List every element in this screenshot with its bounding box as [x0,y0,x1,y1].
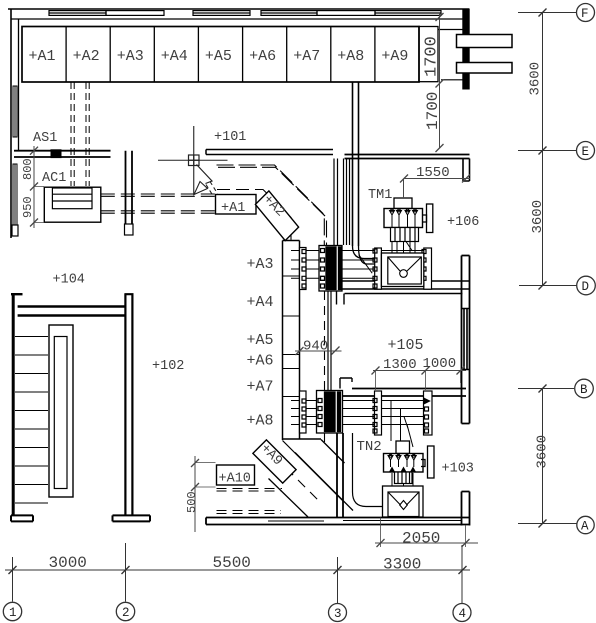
wall B stub hook [340,378,352,389]
grid line E [518,150,576,152]
svg-text:+A4: +A4 [161,48,188,65]
svg-text:+103: +103 [442,462,474,477]
dim 1700 vertical line right of cabinets [439,13,441,148]
dim text 1000 [423,356,457,372]
TM1 transformer tank [384,209,423,228]
+A10 box [217,465,255,485]
wall end cap AC1-room [125,224,134,235]
grid bubble 4 [453,604,471,622]
stair flight outer rect [49,325,73,497]
svg-text:2: 2 [122,606,130,620]
AC1 cabinet inner box [52,188,92,209]
TN2 top pin box [396,441,410,454]
label +A2 cabinet [73,48,100,65]
label +A1 cabinet [29,48,56,65]
grid letter A [581,520,589,534]
label +A8 tray [247,413,274,430]
wire crosshair horizontal [158,159,228,161]
wall D stub down [337,289,345,305]
corner bottom diagonal mid edge [295,453,353,511]
dim text 2050 [402,530,440,548]
TM1 tank internal wires [392,214,415,228]
svg-text:1550: 1550 [416,165,450,181]
TN2 wires from busbars [391,401,413,448]
dim text 800 [21,158,35,180]
dim text 1300 [383,357,417,373]
svg-text:+101: +101 [214,130,246,145]
svg-text:1700: 1700 [424,92,442,130]
horizontal tray AC1 to +A1 top edge [101,194,216,196]
TM1 switch cell inner [388,257,422,284]
dim bottom main line [5,569,470,571]
svg-text:5500: 5500 [213,554,251,572]
tray rail TM1 level [300,248,307,290]
svg-text:+A7: +A7 [293,48,320,65]
dim 1550 ticks [400,175,470,183]
svg-text:1700: 1700 [423,36,442,77]
busbar run TN2 level [291,401,428,425]
column on wall E left [51,150,61,158]
label +A7 tray [247,379,274,396]
wire crosshair vertical [193,126,195,194]
window W6 top wall [375,11,441,16]
svg-text:3: 3 [334,607,342,621]
dim right vertical B-A [542,389,544,524]
svg-text:+102: +102 [152,359,184,374]
+A1 box [216,195,257,215]
TM1 right radiator bar [423,204,433,233]
grid line 3 [337,557,339,603]
label +A9 box rotated [257,441,285,469]
grid line F [518,12,576,14]
dim 2050 line [375,542,478,544]
vertical tray compartment dividers [283,276,300,397]
arc conduit TN2 [353,433,383,507]
dim 500 ticks [191,459,199,491]
dim text 940 [303,339,328,355]
svg-text:+A5: +A5 [205,48,232,65]
label TN2 [357,439,382,455]
wall crossing box TN2 level [317,391,343,434]
dim 500 line [194,456,196,532]
svg-text:940: 940 [303,339,328,355]
grid line A [518,523,577,525]
TN2 right radiator bar [421,446,434,478]
svg-text:+A1: +A1 [29,48,56,65]
grid bubble 1 [3,602,21,620]
corner bottom diagonal dashed center [286,468,320,502]
dim right vertical F-D [542,13,544,286]
feed arrow head [194,182,208,195]
wall right upper [463,9,469,89]
label +105 [388,337,424,354]
svg-text:+A3: +A3 [117,48,144,65]
TM1 wires down [392,242,415,254]
wall E segment mid (+101 south) [206,150,333,155]
dim 1700 ticks [436,13,444,152]
svg-text:+A5: +A5 [247,332,274,349]
svg-text:3000: 3000 [49,554,87,572]
svg-text:1000: 1000 [423,356,457,372]
window W5 top wall [317,11,375,16]
window bottom wall [268,520,324,522]
wall B (room 105 south) [325,389,466,397]
wall left outer line [10,9,12,238]
vertical tray top cap [283,240,300,242]
dim text 5500 [213,554,251,572]
rail TN2 left [373,391,382,435]
grid line 4 [461,545,463,603]
rail TN2 right [424,391,433,435]
label +102 [152,359,184,374]
grid letter F [581,7,589,21]
label +A4 cabinet [161,48,188,65]
busbar run TM1 level [291,251,428,279]
TM1 transformer top rect [394,198,412,209]
TN2 cell funnel [388,492,419,510]
dim 940 ticks [296,347,340,356]
dim text 3600 F-E [528,62,544,96]
dim 1300/1000 extensions [376,371,461,391]
svg-text:1: 1 [9,606,17,620]
grid number 1 [9,606,17,620]
label +A3 tray [247,256,274,273]
window W7 left wall [13,86,17,137]
TN2 switch cell inner [388,492,419,517]
label +A3 cabinet [117,48,144,65]
cabinet row +A1..+A9 outline [22,27,419,83]
corner bottom diagonal edge 2 [283,441,345,503]
svg-text:+A3: +A3 [247,256,274,273]
svg-text:+A10: +A10 [219,472,251,487]
svg-text:+A2: +A2 [73,48,100,65]
grid number 3 [334,607,342,621]
dim text 3000 [49,554,87,572]
stair flight inner rect [54,337,67,489]
label +A10 box [219,472,251,487]
dim text 950 [21,196,35,218]
label TM1 [368,188,392,203]
window W1 top wall [49,11,106,16]
grid bubble 3 [329,604,347,622]
svg-text:E: E [582,145,590,159]
svg-text:+A1: +A1 [221,201,245,216]
dim bottom ticks [9,566,467,574]
wall left inner line [18,19,20,150]
svg-text:3300: 3300 [383,556,421,574]
dim text 1550 [416,165,450,181]
label AS1 [33,131,57,146]
window W2 top wall [106,11,164,16]
stairwell left wall [11,294,33,522]
vertical tray bottom cap [283,438,322,440]
feed arrow dashed tail [206,182,218,197]
wall TN2-room west [337,433,343,518]
wall pair between crossings [328,291,331,390]
label +A4 tray [247,294,274,311]
svg-text:+A7: +A7 [247,379,274,396]
wall top outer line [8,8,469,10]
TM1 winding box [391,228,419,242]
tray corner fan outer dashed edge [217,165,327,246]
svg-text:+A4: +A4 [247,294,274,311]
arc conduit TM1 [353,246,375,264]
label +106 [447,215,479,230]
TN2 wires to cell [392,473,413,486]
stairwell top wall [18,307,126,316]
svg-text:TN2: TN2 [357,439,382,455]
window right wall [462,309,470,370]
dim 1550 line [404,179,471,199]
label +103 [442,462,474,477]
svg-text:3600: 3600 [528,62,544,96]
wall right middle column [462,256,470,424]
window W8 left wall [13,164,17,225]
corner bottom diagonal upper edge [321,440,345,464]
grid letter E [582,145,590,159]
label +A9 cabinet [381,48,408,65]
dim text 3300 [383,556,421,574]
grid line D [519,285,577,287]
dim 500 extensions [195,463,216,488]
tray rail TN2 level [300,391,307,433]
wall crossing box TM1 level [319,246,342,292]
grid bubble F [577,4,595,22]
svg-text:F: F [581,7,589,21]
TN2 bottom contacts [390,468,416,473]
label +A1 box [221,201,245,216]
duct pair from cabinet +A2 down to AC1 [71,82,89,186]
stair treads [15,337,48,504]
wall end cap left [12,225,18,236]
label +A8 cabinet [337,48,364,65]
dim right ticks [539,9,547,528]
dim text 1700 lower [424,92,442,130]
dim text 500 [185,491,199,513]
wall E segment left [14,151,111,157]
tray corner fan inner dashed edge [217,190,291,241]
svg-text:+106: +106 [447,215,479,230]
svg-text:500: 500 [185,491,199,513]
svg-text:AS1: AS1 [33,131,57,146]
label +A5 cabinet [205,48,232,65]
window W3 top wall [193,11,250,16]
niche lines top right [438,30,464,80]
TN2 tank internal wires [391,459,414,467]
label AC1 [42,171,66,186]
dim 2050 extensions [381,518,466,548]
dim 800/950 line [33,146,35,228]
vertical tray right edge [299,241,301,440]
node feed crosshair [189,155,200,166]
grid number 2 [122,606,130,620]
svg-text:3600: 3600 [535,435,551,469]
grid bubble 2 [116,602,134,620]
horizontal tray AC1 to +A1 bottom edge [101,211,216,213]
svg-text:+A6: +A6 [247,353,274,370]
duct dashed vertical between crossings [324,291,326,446]
duct pair from cabinet +A8 down [353,82,359,246]
svg-text:800: 800 [21,158,35,180]
bottom wall mid line right [343,520,462,522]
label +A6 cabinet [249,48,276,65]
+A9 box rotated [253,440,296,483]
grid bubble A [577,516,594,533]
dim 1300/1000 ticks [372,367,465,375]
window W4 top wall [261,11,317,16]
+A2 box rotated [255,191,298,241]
TM1 bushings [390,209,418,215]
wall top inner line [11,18,464,20]
grid letter D [582,280,590,294]
label +104 [53,273,85,288]
grid line B [518,388,574,390]
svg-text:TM1: TM1 [368,188,392,203]
TM1 switch cell outer [381,253,423,287]
wall AC1-room right [126,151,133,224]
grid line 1 [12,557,14,602]
feed arrow zigzag [197,165,213,184]
TN2 winding box [395,472,413,484]
wall E right corner return [463,159,470,182]
svg-text:D: D [582,280,590,294]
svg-text:1300: 1300 [383,357,417,373]
AC1 cabinet outer box [44,187,101,222]
grid letter B [580,383,588,397]
label +101 [214,130,246,145]
label +A7 cabinet [293,48,320,65]
corridor wall pair below E-wall [334,159,338,246]
svg-text:2050: 2050 [402,530,440,548]
dim 800/950 ticks [30,147,38,227]
svg-text:+A6: +A6 [249,48,276,65]
wall right lower stub [462,492,470,526]
TM1 cell funnel [388,257,422,277]
wall D (room 105 north) [334,281,470,294]
svg-text:950: 950 [21,196,35,218]
label +A2 box rotated [259,192,287,220]
rail TM1 right [422,248,432,289]
svg-text:B: B [580,383,588,397]
dim 1300/1000 line [373,370,466,372]
diagonal wire TM1 [359,255,372,273]
busbar duct B1 exiting right [457,35,513,48]
TN2 transformer tank [384,454,424,473]
wall E segment right [345,155,470,159]
TN2 switch cell outer [383,486,424,517]
busbar duct B2 exiting right [457,63,513,74]
1700 text box at cabinet row end [419,27,438,82]
grid bubble D [577,276,596,295]
dim 2050 ticks [377,539,470,547]
dim 800/950 extensions [34,187,44,223]
TN2 bushings [388,454,416,460]
label +A5 tray [247,332,274,349]
label +A6 tray [247,353,274,370]
vertical tray left edge [282,241,284,441]
grid number 4 [459,607,467,621]
svg-text:3600: 3600 [530,200,546,234]
svg-text:+A9: +A9 [381,48,408,65]
svg-text:4: 4 [459,607,467,621]
dim 940 line [295,350,342,352]
wall bottom [206,518,470,525]
svg-text:+A8: +A8 [247,413,274,430]
svg-text:A: A [581,520,589,534]
dim text 3600 E-D [530,200,546,234]
grid bubble B [575,379,594,398]
grid line 2 [125,543,127,602]
dim text 1700 in box [423,36,442,77]
svg-text:+A8: +A8 [337,48,364,65]
corridor wall triple below E-wall [344,159,350,246]
rail TM1 left [373,248,381,289]
svg-text:AC1: AC1 [42,171,66,186]
stairwell right wall [113,294,151,522]
corner bottom diagonal lower edge [269,479,309,518]
svg-text:+104: +104 [53,273,85,288]
cabinet dividers [66,27,375,83]
tray stub below +A10 dashed [217,489,283,514]
grid bubble E [577,142,595,160]
svg-text:+105: +105 [388,337,424,354]
dim text 3600 B-A [535,435,551,469]
